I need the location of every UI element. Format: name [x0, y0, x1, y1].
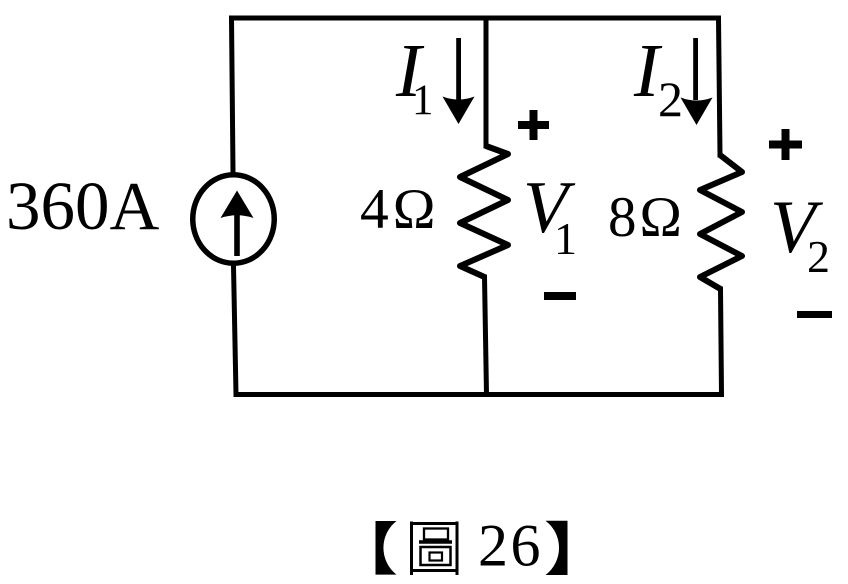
svg-text:2: 2 [658, 71, 683, 127]
svg-text:1: 1 [412, 77, 434, 124]
svg-text:2: 2 [807, 231, 830, 282]
svg-text:360A: 360A [6, 168, 160, 244]
svg-text:4Ω: 4Ω [360, 178, 439, 241]
svg-text:8Ω: 8Ω [608, 186, 685, 249]
svg-text:1: 1 [554, 213, 577, 264]
svg-text:26: 26 [478, 513, 543, 579]
